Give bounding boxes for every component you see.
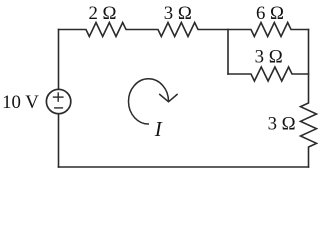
- svg-text:3 Ω: 3 Ω: [268, 114, 296, 135]
- svg-text:3 Ω: 3 Ω: [164, 3, 192, 24]
- svg-text:2 Ω: 2 Ω: [88, 3, 116, 24]
- svg-text:6 Ω: 6 Ω: [256, 3, 284, 24]
- svg-text:10 V: 10 V: [2, 92, 39, 113]
- svg-text:I: I: [154, 117, 163, 141]
- svg-text:3 Ω: 3 Ω: [255, 47, 283, 68]
